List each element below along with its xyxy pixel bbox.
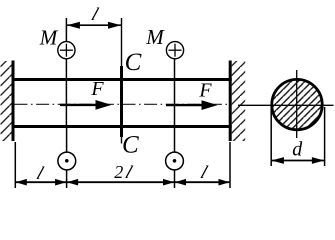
- svg-text:l: l: [34, 164, 46, 184]
- beam bottom edge: [12, 125, 232, 128]
- svg-text:M: M: [145, 25, 165, 49]
- moment symbol circle-plus 1: [58, 42, 75, 59]
- cross-section circle: [272, 79, 322, 129]
- svg-text:F: F: [90, 78, 104, 100]
- svg-text:l: l: [123, 163, 135, 183]
- svg-text:d: d: [292, 139, 303, 161]
- svg-text:F: F: [198, 79, 212, 101]
- force line 2 (x=174.5): [174, 59, 176, 188]
- force line 1 (x=66.4): [65, 18, 67, 188]
- force F1 arrow: [60, 100, 112, 110]
- moment symbol circle-dot 1: [58, 152, 76, 170]
- top dimension line l: [66, 22, 121, 29]
- label l bottom-left: [34, 164, 46, 184]
- svg-text:M: M: [39, 26, 59, 50]
- bottom dimension extension right: [229, 142, 231, 188]
- d dimension extension right: [324, 107, 326, 166]
- svg-text:l: l: [89, 5, 101, 25]
- d dimension extension left: [270, 107, 272, 166]
- label l top: [89, 5, 101, 25]
- cross-section crosshair horizontal: [238, 104, 334, 106]
- bottom dimension line: [15, 181, 230, 183]
- bottom dimension extension left: [14, 142, 16, 188]
- label l bottom-right: [198, 163, 210, 183]
- left wall hatch band: [1, 61, 12, 141]
- right wall hatch band: [232, 61, 246, 141]
- svg-text:C: C: [122, 132, 139, 159]
- d dimension line: [271, 157, 324, 164]
- section line C-C: [121, 18, 123, 144]
- force F2 arrow: [166, 100, 218, 110]
- beam top edge: [12, 78, 232, 81]
- bottom dimension arrowheads: [16, 179, 230, 186]
- svg-text:l: l: [198, 163, 210, 183]
- cross-section crosshair vertical: [296, 70, 298, 138]
- svg-text:C: C: [125, 49, 142, 76]
- moment symbol circle-dot 2: [166, 152, 184, 170]
- svg-text:2: 2: [114, 162, 123, 182]
- right wall line: [229, 61, 232, 142]
- moment symbol circle-plus 2: [166, 42, 183, 59]
- beam centerline (dash-dot): [15, 103, 229, 105]
- left wall line: [12, 61, 15, 142]
